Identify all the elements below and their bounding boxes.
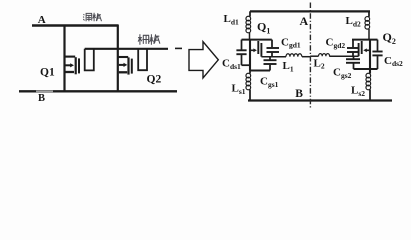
svg-text:Q2: Q2 bbox=[147, 74, 162, 86]
svg-text:B: B bbox=[38, 93, 45, 104]
svg-text:B: B bbox=[295, 88, 303, 100]
svg-text:A: A bbox=[38, 14, 46, 26]
svg-text:A: A bbox=[300, 14, 309, 28]
svg-text:Q1: Q1 bbox=[40, 67, 55, 79]
